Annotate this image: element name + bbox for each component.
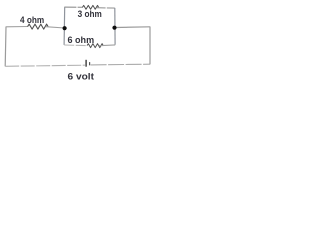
node: left junction dot <box>63 26 67 30</box>
wire: top horizontal left segment <box>64 6 82 8</box>
svg-text:3 ohm: 3 ohm <box>78 9 102 19</box>
wire: top right horizontal to node <box>115 26 150 29</box>
wire: outer right vertical <box>149 27 151 65</box>
svg-text:4 ohm: 4 ohm <box>20 15 44 25</box>
battery V1 long plate <box>85 60 87 67</box>
resistor R3 6 ohm zigzag <box>87 44 103 48</box>
wire: 4 ohm branch left segment <box>6 26 28 28</box>
wire: top horizontal right segment <box>97 7 115 9</box>
wire: inner right vertical <box>114 8 116 45</box>
wire: outer left vertical <box>4 27 7 67</box>
battery V1 short plate <box>89 62 91 65</box>
resistor R1 4 ohm zigzag <box>28 24 49 29</box>
resistor R2 3 ohm zigzag <box>82 5 98 9</box>
svg-text:6 ohm: 6 ohm <box>68 35 95 45</box>
node: right junction dot <box>112 26 116 30</box>
wire: 6 ohm branch left segment <box>64 44 87 47</box>
wire: inner left vertical <box>63 7 66 45</box>
wire: bottom left horizontal <box>5 65 85 66</box>
wire: bottom right horizontal <box>91 63 150 66</box>
wire: 6 ohm branch right segment <box>99 44 115 47</box>
svg-text:6 volt: 6 volt <box>68 71 95 81</box>
wire: 4 ohm branch right segment <box>46 27 65 28</box>
